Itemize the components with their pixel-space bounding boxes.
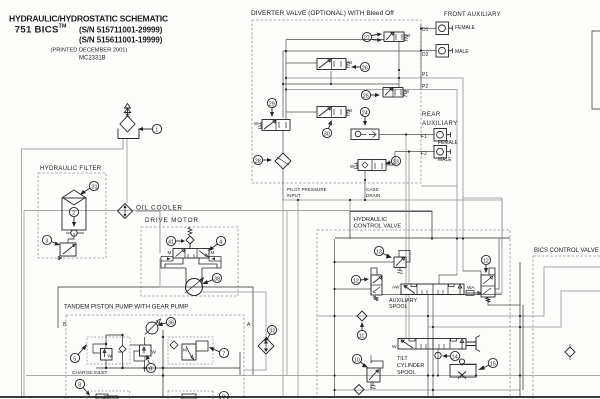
wire D2 branch bbox=[283, 50, 421, 52]
relief valve 13 bbox=[394, 251, 410, 274]
wire relief10 drop bbox=[370, 355, 372, 363]
high pressure relief diamond 32 bbox=[258, 338, 274, 354]
svg-text:AW: AW bbox=[392, 285, 400, 291]
svg-text:MC2331B: MC2331B bbox=[79, 56, 106, 62]
wire D1 stub bbox=[421, 28, 436, 30]
svg-text:9: 9 bbox=[222, 394, 225, 399]
wire motor to pump column bbox=[160, 258, 266, 370]
wire supply riser bbox=[285, 40, 287, 121]
callout 8 bbox=[75, 379, 90, 396]
svg-text:W: W bbox=[152, 350, 157, 355]
wire case column bbox=[286, 211, 288, 376]
svg-text:12: 12 bbox=[353, 278, 359, 284]
callout 1 bbox=[138, 124, 162, 133]
tandem pump box bbox=[66, 315, 244, 399]
svg-text:DIVERTER VALVE (OPTIONAL) WITH: DIVERTER VALVE (OPTIONAL) WITH Bleed Off bbox=[251, 10, 394, 17]
svg-text:SPOOL: SPOOL bbox=[397, 370, 416, 376]
callout 38 bbox=[202, 273, 222, 284]
svg-text:751 BICS: 751 BICS bbox=[15, 25, 59, 36]
callout 7 bbox=[209, 347, 229, 358]
flow divider valve bbox=[351, 129, 379, 140]
svg-text:32: 32 bbox=[269, 328, 275, 334]
callout 6 bbox=[146, 355, 156, 373]
svg-text:DRAIN: DRAIN bbox=[366, 193, 380, 198]
svg-text:CYLINDER: CYLINDER bbox=[397, 363, 424, 369]
hcv inner box bbox=[335, 237, 510, 239]
wire hcv label feed bbox=[349, 200, 351, 213]
svg-text:5: 5 bbox=[73, 356, 76, 362]
wire valve23 to F2 bbox=[386, 152, 395, 166]
solenoid valve 25 bbox=[383, 88, 410, 98]
callout 10 bbox=[352, 354, 368, 367]
svg-text:15: 15 bbox=[490, 361, 496, 367]
svg-text:FEMALE: FEMALE bbox=[455, 25, 476, 31]
svg-text:MALE: MALE bbox=[455, 49, 469, 55]
solenoid valve 26 bbox=[317, 59, 353, 70]
wire relief13 feed bbox=[335, 261, 395, 263]
svg-text:(PRINTED DECEMBER 2001): (PRINTED DECEMBER 2001) bbox=[51, 48, 128, 54]
wire P branch bbox=[463, 198, 502, 248]
wire tank bus bbox=[26, 375, 600, 377]
callout 32 bbox=[264, 325, 277, 341]
svg-text:BICS CONTROL VALVE: BICS CONTROL VALVE bbox=[534, 248, 599, 254]
wire lower bus bbox=[335, 389, 521, 391]
svg-text:W: W bbox=[392, 344, 397, 350]
svg-text:CHARGE INLET: CHARGE INLET bbox=[72, 370, 108, 376]
wire spool riser b bbox=[432, 295, 434, 398]
callout 27 bbox=[362, 32, 382, 42]
wire P1 run bbox=[286, 78, 463, 271]
svg-text:CONTROL VALVE: CONTROL VALVE bbox=[354, 223, 402, 229]
wire main return line through cooler bbox=[24, 210, 432, 212]
tilt cylinder spool valve bbox=[392, 336, 480, 352]
hydraulic filter box bbox=[38, 173, 106, 258]
drive motor box bbox=[141, 227, 238, 296]
right edge legend box bbox=[592, 31, 600, 109]
callout 15 bbox=[478, 358, 498, 370]
svg-text:M: M bbox=[211, 250, 215, 255]
callout 29 bbox=[267, 98, 276, 117]
callout 24 bbox=[360, 107, 369, 126]
svg-text:29: 29 bbox=[269, 101, 275, 107]
svg-text:11: 11 bbox=[359, 333, 365, 339]
junction dots diverter bbox=[282, 27, 422, 181]
wire return riser 2 bbox=[282, 51, 284, 118]
svg-text:28: 28 bbox=[255, 158, 261, 164]
wire rear aux box bottom bbox=[421, 185, 457, 187]
wire P1 to valve12R bbox=[463, 271, 481, 275]
svg-text:13: 13 bbox=[376, 249, 382, 255]
svg-text:DRIVE MOTOR: DRIVE MOTOR bbox=[145, 217, 199, 224]
svg-text:23: 23 bbox=[393, 159, 399, 165]
svg-text:36: 36 bbox=[168, 320, 174, 326]
svg-text:M: M bbox=[168, 250, 172, 255]
hcv label box bbox=[350, 212, 432, 240]
wire breather drain left bbox=[22, 139, 124, 398]
wire hcv left rail bbox=[334, 239, 336, 397]
callout 12 right bbox=[481, 255, 490, 273]
callout 9 bbox=[219, 391, 228, 399]
svg-text:D1: D1 bbox=[422, 27, 429, 33]
coupler F2 male bbox=[434, 146, 451, 159]
wire ball15 link bbox=[462, 364, 476, 371]
auxiliary spool valve bbox=[392, 284, 475, 295]
oil cooler bbox=[118, 204, 133, 219]
wire aux vert bbox=[420, 24, 422, 90]
svg-text:27: 27 bbox=[364, 35, 370, 41]
callout 2 bbox=[69, 207, 78, 227]
gear pump symbol 36 bbox=[145, 319, 161, 335]
coupler D2 male bbox=[436, 45, 453, 58]
callout 13 bbox=[374, 246, 392, 258]
pump internals wires row1 bbox=[118, 330, 240, 398]
svg-text:P1: P1 bbox=[422, 72, 428, 78]
svg-text:TM: TM bbox=[59, 24, 67, 30]
pilot filter 28 bbox=[275, 153, 291, 169]
callout 25 bbox=[361, 90, 380, 99]
wire bics line A bbox=[317, 267, 600, 316]
svg-text:REAR: REAR bbox=[422, 112, 441, 118]
svg-text:F2: F2 bbox=[421, 151, 427, 157]
wire return to tank left bbox=[23, 211, 25, 398]
wire F2 line bbox=[395, 151, 434, 153]
callout 11 bbox=[357, 322, 366, 340]
pilot valve 12 right bbox=[466, 268, 495, 302]
wire valve24 feed bbox=[286, 111, 317, 113]
callout 26 bbox=[351, 62, 370, 71]
svg-text:31: 31 bbox=[92, 184, 98, 190]
svg-text:7: 7 bbox=[222, 351, 225, 357]
drive motor shuttle valve bbox=[161, 249, 221, 262]
svg-text:FRONT AUXILIARY: FRONT AUXILIARY bbox=[444, 12, 501, 18]
wire relief10 bottom bbox=[370, 382, 372, 390]
callout 28 bbox=[253, 155, 272, 164]
callout 23 bbox=[385, 156, 401, 165]
check diamond on line 389 bbox=[354, 385, 364, 395]
bypass valve item 3 bbox=[58, 233, 76, 260]
svg-text:1: 1 bbox=[155, 127, 158, 133]
charge relief valve 6 bbox=[134, 337, 157, 361]
relief check on motor valve bbox=[186, 228, 194, 249]
svg-text:AUXILIARY: AUXILIARY bbox=[422, 121, 458, 127]
diverter valve box bbox=[252, 20, 421, 183]
svg-text:(S/N 515711001-29999): (S/N 515711001-29999) bbox=[79, 26, 163, 35]
wire valve27 drop bbox=[398, 41, 400, 88]
pilot valve 12 left bbox=[371, 268, 382, 301]
wire bics line B bbox=[428, 291, 600, 327]
svg-text:M: M bbox=[183, 348, 187, 353]
pump row2 right dashed bbox=[168, 391, 213, 399]
svg-text:D2: D2 bbox=[422, 52, 429, 58]
check valve 11 bbox=[357, 311, 367, 321]
wire spool riser a bbox=[427, 295, 429, 398]
piston pump 5 servo bbox=[93, 335, 126, 368]
wire pilot lines to spool bbox=[405, 135, 407, 284]
svg-text:P2: P2 bbox=[422, 84, 428, 90]
solenoid valve 27 bbox=[384, 32, 411, 42]
svg-text:41: 41 bbox=[168, 239, 174, 245]
wire valve12R right a bbox=[495, 239, 499, 289]
svg-text:W: W bbox=[108, 354, 113, 359]
wire filter28 to pilot bbox=[282, 169, 284, 200]
callout 30 bbox=[322, 120, 332, 138]
svg-text:4: 4 bbox=[219, 239, 222, 245]
callout 14 bbox=[442, 351, 460, 360]
wire pilot line 2 bbox=[408, 152, 410, 284]
drive motor symbol bbox=[185, 268, 204, 296]
wire pilot riser bbox=[282, 200, 284, 398]
wire valve12L feed bbox=[335, 288, 372, 290]
svg-text:38: 38 bbox=[214, 276, 220, 282]
check diamond bics bbox=[565, 344, 575, 360]
solenoid valve 23 bbox=[350, 160, 386, 171]
svg-text:24: 24 bbox=[362, 110, 368, 116]
callout 3 bbox=[42, 235, 60, 245]
breather filter item 1 bbox=[118, 104, 139, 139]
wire valve29 drop to filter bbox=[282, 131, 284, 153]
coupler F1 female bbox=[434, 129, 451, 142]
hydraulic control valve box bbox=[317, 230, 510, 399]
wire valve12R bottom line bbox=[382, 294, 502, 296]
svg-text:12: 12 bbox=[483, 258, 489, 264]
wire valve26 feed bbox=[286, 62, 317, 64]
svg-text:TILT: TILT bbox=[397, 356, 408, 362]
callout 36 bbox=[157, 317, 176, 326]
wire check14 drop bbox=[437, 349, 439, 375]
left piston pump group dashed bbox=[87, 337, 130, 364]
relief valve 10 bbox=[367, 361, 383, 389]
wire case drain header bbox=[283, 199, 502, 201]
callout 12 left bbox=[351, 275, 369, 284]
callout 4 bbox=[208, 236, 226, 251]
callout 31 bbox=[80, 181, 99, 195]
svg-text:TANDEM PISTON PUMP WITH GEAR P: TANDEM PISTON PUMP WITH GEAR PUMP bbox=[64, 304, 188, 311]
wire valve23 case drain bbox=[364, 171, 366, 200]
wire F1 line bbox=[379, 134, 434, 136]
svg-text:30: 30 bbox=[324, 131, 330, 137]
svg-text:INPUT: INPUT bbox=[287, 193, 301, 198]
callout 5 bbox=[70, 344, 87, 363]
callout 41 bbox=[166, 236, 185, 245]
wire return riser bbox=[297, 200, 299, 398]
svg-text:CASE: CASE bbox=[366, 187, 379, 192]
wire valve12R drop bbox=[488, 297, 520, 305]
wire P2 run bbox=[286, 90, 457, 276]
svg-text:14: 14 bbox=[452, 354, 458, 360]
wire valve27 feed bbox=[286, 39, 384, 41]
diverter internal wires bbox=[283, 24, 436, 200]
title text bbox=[9, 13, 168, 61]
svg-text:PILOT PRESSURE: PILOT PRESSURE bbox=[287, 187, 327, 192]
wire P2 branch2 bbox=[495, 198, 502, 293]
svg-text:(S/N 515611001-19999): (S/N 515611001-19999) bbox=[79, 36, 163, 45]
svg-text:8: 8 bbox=[78, 382, 81, 388]
pump outer box bbox=[58, 287, 253, 375]
svg-text:SPOOL: SPOOL bbox=[389, 304, 408, 310]
wire bleed line bbox=[283, 83, 399, 85]
wire pilot lines lower bbox=[405, 295, 407, 339]
svg-text:26: 26 bbox=[362, 65, 368, 71]
piston pump 7 servo bbox=[170, 341, 208, 360]
charge line bbox=[96, 367, 240, 369]
wire D2 stub bbox=[421, 50, 436, 52]
wire valve26 drop bbox=[330, 71, 332, 84]
wire bics riser 2 bbox=[522, 305, 524, 390]
wire bics riser 1 bbox=[519, 262, 521, 397]
junction dots hcv bbox=[297, 199, 521, 391]
wire breather to oil cooler bbox=[126, 139, 128, 203]
svg-text:HYDRAULIC/HYDROSTATIC SCHEMATI: HYDRAULIC/HYDROSTATIC SCHEMATIC bbox=[9, 13, 168, 23]
pump row2 dashed bbox=[87, 391, 130, 399]
junction dots pump bbox=[105, 334, 164, 377]
svg-text:HYDRAULIC FILTER: HYDRAULIC FILTER bbox=[40, 165, 102, 172]
svg-text:6: 6 bbox=[149, 366, 152, 372]
wire cooler to motor bbox=[136, 211, 160, 253]
svg-text:10: 10 bbox=[354, 357, 360, 363]
coupler D1 female bbox=[436, 22, 453, 35]
svg-text:HYDRAULIC: HYDRAULIC bbox=[354, 217, 388, 223]
svg-text:25: 25 bbox=[363, 93, 369, 99]
svg-text:3: 3 bbox=[45, 239, 48, 245]
wire spool top feed bbox=[439, 275, 457, 284]
anti-drift valve 15 bbox=[450, 359, 476, 379]
solenoid valve 24 bbox=[317, 107, 353, 118]
svg-text:WA: WA bbox=[467, 285, 475, 291]
ball check 14 bbox=[435, 352, 441, 358]
svg-text:2: 2 bbox=[72, 211, 75, 217]
solenoid valve 29 bbox=[254, 120, 290, 131]
right piston pump group dashed bbox=[168, 337, 213, 364]
BICS control valve box bbox=[533, 256, 600, 399]
motor loop wires bbox=[161, 258, 221, 268]
hydraulic filter item 2/31 bbox=[62, 190, 86, 236]
wire bottom edge bbox=[0, 396, 600, 398]
svg-text:F1: F1 bbox=[421, 134, 427, 140]
